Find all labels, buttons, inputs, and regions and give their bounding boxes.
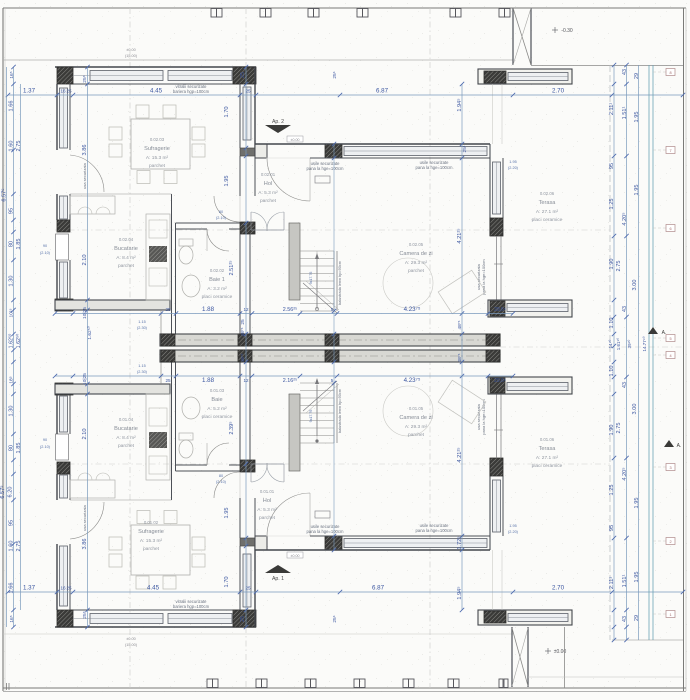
small dims kitchen wall bottom (137, 364, 148, 374)
svg-text:29: 29 (634, 73, 640, 79)
room label Baie 1 0.02.02 (202, 268, 233, 300)
svg-text:80: 80 (219, 210, 223, 214)
svg-text:A: 27.1 m²: A: 27.1 m² (536, 455, 559, 461)
small dims bath door top (216, 210, 227, 220)
Ap.1 terrace south wall with window (488, 377, 572, 394)
svg-text:2.75: 2.75 (616, 423, 622, 434)
svg-text:95: 95 (9, 520, 15, 526)
Ap.2 terrace edge beam (478, 69, 572, 84)
svg-text:Camera de zi: Camera de zi (399, 415, 432, 421)
svg-text:0.01.03: 0.01.03 (210, 388, 225, 393)
interior dimension line x87.5 (87, 67, 89, 627)
room label Sufragerie 0.01.02 (138, 520, 164, 552)
right dimension line x626.5 (626, 65, 628, 640)
svg-text:43: 43 (622, 382, 628, 388)
svg-text:A.: A. (677, 443, 682, 449)
site border left (2, 8, 4, 691)
svg-text:usa securizata: usa securizata (82, 504, 87, 531)
svg-text:1.25: 1.25 (609, 485, 615, 496)
svg-text:1.66: 1.66 (9, 583, 15, 594)
svg-text:pana la hge=100cm: pana la hge=100cm (481, 399, 486, 435)
svg-text:48⁷⁵: 48⁷⁵ (457, 320, 463, 329)
dimension chain mid upper y313.5 (55, 313, 513, 315)
svg-text:parchet: parchet (149, 163, 166, 169)
svg-text:±0.00: ±0.00 (126, 48, 135, 52)
room label Hol 0.02.01 (258, 172, 278, 204)
svg-text:0.02.01: 0.02.01 (261, 172, 276, 177)
svg-text:2.39⁵: 2.39⁵ (228, 421, 235, 434)
svg-text:1.30: 1.30 (9, 406, 15, 417)
svg-text:Sufragerie: Sufragerie (144, 146, 170, 152)
Ap.2 west wall door opening with swing (70, 155, 104, 192)
svg-text:43: 43 (622, 69, 628, 75)
svg-text:25⁶: 25⁶ (332, 615, 338, 622)
Ap.1 west wall window 3 (projecting) (56, 434, 69, 460)
site border right (683, 8, 685, 691)
site border bottom (3, 687, 686, 689)
svg-text:(2.30): (2.30) (137, 370, 148, 374)
Ap.2 west wall segment 4 with window (56, 260, 58, 300)
Ap.2 bath WC (179, 246, 193, 264)
Ap.1 electrical panel (315, 511, 330, 518)
svg-text:1.72⁵: 1.72⁵ (456, 536, 463, 549)
svg-text:parchet: parchet (408, 432, 425, 438)
svg-text:A: 15.3 m²: A: 15.3 m² (140, 538, 163, 544)
svg-text:5: 5 (669, 337, 671, 341)
room label Hol 0.01.01 (257, 489, 277, 521)
Ap.1 corner pier NW (57, 610, 73, 627)
right dimension line x649 teal (648, 65, 650, 640)
party wall lower band (160, 350, 500, 362)
room label Sufragerie 0.02.03 (144, 137, 170, 169)
Ap.2 entry wall glazed band to living room (255, 143, 490, 145)
Ap.1 entrance arrow (265, 565, 291, 582)
svg-text:43: 43 (622, 306, 628, 312)
svg-text:A: 5.2 m²: A: 5.2 m² (207, 406, 227, 412)
Ap.1 hall closet double doors (251, 463, 284, 482)
svg-text:±0.00: ±0.00 (291, 554, 300, 558)
border jogs bottom left (6, 683, 8, 690)
Ap.1 dining door swing from hall (214, 472, 240, 498)
svg-text:95: 95 (609, 163, 615, 169)
small dims terrace slider top (508, 160, 519, 170)
svg-text:1.95: 1.95 (634, 498, 640, 509)
svg-text:0.01.04: 0.01.04 (119, 417, 134, 422)
svg-text:90: 90 (43, 244, 47, 248)
svg-text:A: 29.3 m²: A: 29.3 m² (405, 260, 428, 266)
svg-text:parchet: parchet (408, 268, 425, 274)
Ap.1 stair flight (300, 378, 339, 443)
service line under bottom beam (564, 627, 566, 688)
svg-text:0.01.06: 0.01.06 (540, 437, 555, 442)
small dims west door top (40, 244, 51, 255)
svg-text:A: 27.1 m²: A: 27.1 m² (536, 209, 559, 215)
Ap.2 kitchen-bath partition wall (171, 194, 173, 334)
Ap.2 entry wall west stub (255, 144, 267, 158)
svg-text:1.15: 1.15 (138, 320, 145, 324)
svg-text:9x17.76: 9x17.76 (309, 272, 313, 285)
svg-text:7: 7 (669, 149, 671, 153)
interior dimension line x462 (461, 84, 463, 610)
entry glazing label top left (307, 161, 344, 171)
Ap.2 exterior wall north left section (55, 66, 256, 68)
entry glazing label bottom right (416, 523, 453, 533)
svg-text:1.95: 1.95 (634, 185, 640, 196)
Ap.1 entry wall pier (325, 536, 342, 550)
Ap.2 west wall window 3 (projecting) (56, 234, 69, 260)
svg-text:1.10: 1.10 (609, 366, 615, 377)
Ap.2 bath east wall (239, 234, 241, 334)
Ap.2 terrace south wall with window (488, 300, 572, 317)
right dimension line x614 (613, 65, 615, 640)
svg-text:4.45: 4.45 (150, 88, 163, 95)
Ap.2 bath north wall (176, 222, 241, 224)
svg-text:25: 25 (240, 616, 246, 622)
svg-text:bariera hgp=100cm: bariera hgp=100cm (173, 89, 210, 94)
Ap.1 kitchen south wall (55, 384, 170, 394)
axis dashed vertical line x430 (429, 8, 431, 688)
Ap.1 bath east wall (239, 360, 241, 460)
Ap.2 corner pier SW kitchen (55, 299, 73, 311)
Ap.1 bath door swing (207, 443, 229, 465)
svg-text:parchet: parchet (259, 515, 276, 521)
svg-text:1.61⁹⁰: 1.61⁹⁰ (616, 338, 621, 351)
svg-text:placi ceramice: placi ceramice (532, 463, 563, 469)
Ap.2 entry door swing (267, 158, 310, 201)
svg-text:1.88: 1.88 (202, 377, 215, 384)
svg-text:2: 2 (669, 540, 671, 544)
svg-text:1.95: 1.95 (509, 160, 516, 164)
svg-text:1.88: 1.88 (202, 306, 215, 313)
Ap.1 entry wall glazed band to living room (255, 549, 490, 551)
svg-text:4.20⁵: 4.20⁵ (621, 212, 628, 225)
svg-text:25: 25 (240, 72, 246, 78)
svg-text:1.60: 1.60 (9, 541, 15, 552)
Ap.2 living room sofa circle (383, 258, 433, 308)
Ap.2 bath door swing (207, 229, 229, 251)
Ap.1 beam to wall connection lines (492, 550, 494, 610)
svg-text:5: 5 (331, 378, 334, 383)
Ap.1 kitchen-bath partition wall (171, 360, 173, 500)
svg-text:(2.10): (2.10) (216, 216, 227, 220)
neighbour facade line top (3, 59, 513, 61)
svg-text:0.02.02: 0.02.02 (210, 268, 225, 273)
Ap.2 dining table with chairs (109, 105, 205, 184)
svg-text:0.01.05: 0.01.05 (409, 406, 424, 411)
svg-text:Ap. 1: Ap. 1 (272, 576, 284, 582)
svg-text:1.95: 1.95 (634, 572, 640, 583)
section arrow A right lower (664, 440, 681, 449)
site border top (3, 7, 686, 9)
svg-text:placi ceramice: placi ceramice (532, 217, 563, 223)
ticks on interior dimension lines (85, 65, 464, 629)
svg-text:1.85: 1.85 (16, 443, 22, 454)
svg-text:3.00: 3.00 (632, 280, 638, 291)
neighbour facade line bottom right (612, 639, 683, 641)
left dimension line x6.5 (6, 67, 8, 627)
svg-text:3.86: 3.86 (82, 539, 88, 550)
svg-text:A: 3.2 m²: A: 3.2 m² (207, 286, 227, 292)
svg-text:2.16²⁵: 2.16²⁵ (283, 378, 298, 384)
svg-text:1.62⁵⁰: 1.62⁵⁰ (9, 334, 15, 349)
Ap.1 stair balustrade wall (289, 394, 300, 471)
room label Camera de zi 0.02.05 (399, 242, 432, 274)
svg-text:9x17.76: 9x17.76 (309, 410, 313, 423)
svg-text:placi ceramice: placi ceramice (202, 294, 233, 300)
svg-text:(2.20): (2.20) (508, 166, 519, 170)
svg-text:(15.00): (15.00) (125, 54, 138, 58)
svg-text:1.51¹: 1.51¹ (622, 574, 628, 587)
svg-text:1.51¹: 1.51¹ (622, 106, 628, 119)
svg-text:14.77⁹⁰: 14.77⁹⁰ (642, 336, 647, 351)
svg-text:1.90: 1.90 (609, 259, 615, 270)
Ap.2 electrical panel (315, 176, 330, 183)
right dimension line x653 teal (652, 65, 654, 640)
Ap.1 living east wall pier (490, 458, 503, 476)
Ap.1 corner pier SW kitchen (55, 383, 73, 395)
svg-text:1.37: 1.37 (23, 88, 36, 95)
svg-text:80: 80 (9, 241, 15, 247)
svg-text:8: 8 (669, 71, 671, 75)
svg-text:usa securizata: usa securizata (82, 162, 87, 189)
svg-text:29,6⁵: 29,6⁵ (494, 307, 506, 313)
svg-text:Terasa: Terasa (539, 446, 557, 452)
Ap.2 stair balustrade wall (289, 223, 300, 300)
svg-text:0.02.05: 0.02.05 (409, 242, 424, 247)
svg-text:25⁶: 25⁶ (332, 71, 338, 78)
svg-text:1.60: 1.60 (9, 141, 15, 152)
svg-text:4: 4 (669, 354, 671, 358)
Ap.1 terrace sliding door (496, 394, 498, 458)
svg-text:1.90: 1.90 (609, 425, 615, 436)
dimension chain bottom y592 (8, 591, 683, 593)
svg-text:2.70: 2.70 (552, 88, 565, 95)
svg-text:(15.00): (15.00) (125, 643, 138, 647)
axis dashed vertical line x246 (245, 8, 247, 67)
entry glazing label bottom left (307, 524, 344, 534)
svg-text:0.01.02: 0.01.02 (144, 520, 159, 525)
svg-text:39⁹⁰: 39⁹⁰ (627, 339, 632, 348)
Ap.2 corner pier NE of living-dining (233, 67, 256, 84)
svg-text:6.87: 6.87 (372, 585, 385, 592)
svg-text:0.02.04: 0.02.04 (119, 237, 134, 242)
entry level mark Ap.1 (287, 552, 303, 558)
small dims west door bottom (40, 438, 51, 449)
svg-text:1.70: 1.70 (224, 106, 230, 117)
Ap.2 hall-dining wall dark lintel (240, 148, 255, 156)
right dimension numbers (608, 69, 647, 622)
svg-text:2.56²⁵: 2.56²⁵ (283, 307, 298, 313)
svg-text:1.95: 1.95 (509, 524, 516, 528)
Ap.1 hall-dining wall dark lintel (240, 538, 255, 546)
Ap.1 living room sofa circle (383, 386, 433, 436)
svg-text:10|25: 10|25 (82, 373, 88, 385)
Ap.1 kitchen south wall step (160, 360, 162, 384)
Ap.1 corner pier NE of living-dining (233, 610, 256, 627)
svg-text:2.11¹: 2.11¹ (609, 103, 615, 115)
svg-text:Hol: Hol (264, 181, 272, 187)
svg-text:pana la hge=100cm: pana la hge=100cm (416, 165, 453, 170)
Ap.2 kitchen south wall step (160, 310, 162, 334)
svg-text:1.95: 1.95 (224, 507, 230, 518)
svg-text:2.10: 2.10 (82, 254, 88, 265)
svg-text:Baie: Baie (211, 397, 222, 403)
room label Bucatarie 0.02.04 (114, 237, 138, 269)
svg-text:6.87: 6.87 (376, 88, 389, 95)
svg-text:2.70: 2.70 (552, 585, 565, 592)
chimney shaft top with cross bracing (512, 8, 514, 65)
svg-text:placi ceramice: placi ceramice (202, 414, 233, 420)
svg-text:0.02.03: 0.02.03 (150, 137, 165, 142)
interior dimension numbers (82, 71, 468, 622)
svg-text:16⁵: 16⁵ (9, 71, 15, 78)
svg-text:parchet: parchet (118, 263, 135, 269)
Ap.1 north window band (90, 614, 163, 624)
svg-text:95: 95 (609, 525, 615, 531)
small dims bath door bottom (216, 474, 227, 484)
terrace dashed edge x610 (609, 65, 611, 640)
svg-text:1.95: 1.95 (634, 112, 640, 123)
svg-text:14⁹⁰: 14⁹⁰ (608, 339, 613, 348)
svg-text:-0.30: -0.30 (561, 28, 573, 34)
svg-text:1.85: 1.85 (16, 239, 22, 250)
Ap.1 terrace edge beam (478, 610, 572, 625)
svg-text:1.62⁵⁰: 1.62⁵⁰ (16, 334, 22, 349)
svg-text:25¹: 25¹ (462, 145, 468, 152)
svg-text:3.86: 3.86 (82, 145, 88, 156)
svg-text:1.94⁵: 1.94⁵ (456, 586, 463, 599)
svg-text:A: 5.3 m²: A: 5.3 m² (258, 190, 278, 196)
svg-text:43: 43 (622, 616, 628, 622)
svg-text:16: 16 (60, 89, 66, 94)
Ap.2 hall wall pier south (240, 222, 255, 234)
svg-text:1.25: 1.25 (609, 199, 615, 210)
Ap.1 hall-dining wall mid (239, 498, 241, 538)
svg-text:1.10: 1.10 (609, 318, 615, 329)
svg-text:2.51²⁵: 2.51²⁵ (228, 260, 235, 275)
entry level mark Ap.2 (287, 136, 303, 142)
axis dashed horizontal center (500, 346, 683, 348)
left dimension line x20.5 (20, 84, 22, 610)
svg-text:Sufragerie: Sufragerie (138, 529, 164, 535)
level note on axis line top (125, 48, 138, 58)
room label Terasa 0.02.06 (532, 191, 563, 223)
svg-text:A: 5.3 m²: A: 5.3 m² (257, 507, 277, 513)
Ap.1 west wall segment 4 with window (56, 394, 58, 434)
svg-text:16⁵: 16⁵ (9, 615, 15, 622)
svg-text:80: 80 (9, 445, 15, 451)
Ap.2 beam to wall connection lines (492, 84, 494, 144)
svg-text:pana la hge=100cm: pana la hge=100cm (481, 259, 486, 295)
interior dimension line x246 (245, 67, 247, 627)
svg-text:parchet: parchet (260, 198, 277, 204)
Ap.1 hall-dining wall upper with window (239, 546, 241, 610)
room label Terasa 0.01.06 (532, 437, 563, 469)
svg-text:Baie 1: Baie 1 (209, 277, 225, 283)
Ap.2 stair flight (300, 251, 339, 313)
room label Camera de zi 0.01.05 (399, 406, 432, 438)
Ap.2 west wall segment 2 (56, 194, 58, 220)
Ap.1 kitchen counter north with sink (70, 480, 115, 498)
svg-text:Bucatarie: Bucatarie (114, 246, 138, 252)
svg-text:25: 25 (66, 89, 72, 94)
Ap.1 bath north wall (176, 470, 241, 472)
svg-text:Ap. 2: Ap. 2 (272, 119, 284, 125)
svg-text:pana la hge=100cm: pana la hge=100cm (416, 528, 453, 533)
axis marker boxes right edge (653, 69, 675, 618)
svg-text:balustrada lemn hp=90cm: balustrada lemn hp=90cm (338, 261, 342, 305)
svg-text:18⁵: 18⁵ (9, 376, 15, 383)
axis dashed horizontal y230 (55, 229, 610, 231)
svg-text:(2.30): (2.30) (137, 326, 148, 330)
south window label (173, 599, 210, 609)
svg-text:4.20⁵: 4.20⁵ (621, 467, 628, 480)
section arrow A right upper (648, 327, 666, 336)
svg-text:1.37: 1.37 (23, 585, 36, 592)
svg-text:6.57⁵: 6.57⁵ (1, 188, 8, 201)
Ap.2 hall-dining wall upper with window (239, 84, 241, 148)
Ap.2 kitchen counter north with sink (70, 196, 115, 214)
left dimension numbers (0, 71, 22, 622)
svg-text:29: 29 (634, 615, 640, 621)
svg-text:1.94⁵: 1.94⁵ (456, 98, 463, 111)
svg-text:A: 8.4 m²: A: 8.4 m² (116, 255, 136, 261)
svg-text:±0.00: ±0.00 (291, 138, 300, 142)
left dimension line x13.5 (13, 67, 15, 627)
interior dimension line x334 (333, 144, 335, 550)
svg-text:4.45: 4.45 (147, 585, 160, 592)
chimney shaft bottom with cross bracing (511, 627, 513, 687)
svg-text:Bucatarie: Bucatarie (114, 426, 138, 432)
svg-text:90: 90 (43, 438, 47, 442)
level note on axis line bottom (125, 637, 138, 647)
Ap.1 kitchen counter east (146, 394, 170, 480)
Ap.1 living east wall upper (489, 458, 491, 550)
Ap.1 west wall door opening with swing (70, 502, 104, 539)
svg-text:pana la hge=100cm: pana la hge=100cm (307, 529, 344, 534)
axis dashed horizontal y464 (55, 463, 610, 465)
level mark +0.00 bottom right (545, 648, 566, 655)
Ap.1 entry door swing (267, 493, 310, 536)
Ap.2 north window band (90, 71, 163, 81)
party wall upper band piers (161, 334, 175, 346)
svg-text:(2.10): (2.10) (40, 251, 51, 255)
svg-text:25: 25 (240, 319, 246, 325)
Ap.2 terrace sliding door (496, 236, 498, 300)
Ap.1 bath WC (179, 440, 193, 458)
dimension chain mid lower y376 (55, 375, 513, 377)
Ap.2 west wall segment with window 1 (56, 84, 58, 150)
small dims terrace slider bottom (508, 524, 519, 534)
right dimension line x638.5 (638, 65, 640, 640)
Ap.1 west wall segment 2 (56, 474, 58, 500)
room label Baie 0.01.03 (202, 388, 233, 420)
svg-text:4.21²⁵: 4.21²⁵ (456, 228, 463, 244)
svg-text:balustrada lemn hp=90cm: balustrada lemn hp=90cm (338, 389, 342, 433)
svg-text:80: 80 (219, 474, 223, 478)
svg-text:6: 6 (669, 227, 671, 231)
Ap.2 kitchen stove hatched (149, 246, 167, 262)
top boundary window symbols (211, 9, 217, 18)
svg-text:4.21²⁵: 4.21²⁵ (456, 447, 463, 463)
neighbour facade line bottom (3, 633, 513, 635)
svg-text:25: 25 (165, 307, 171, 312)
svg-text:1.30: 1.30 (9, 276, 15, 287)
svg-text:29,6⁵: 29,6⁵ (494, 378, 506, 384)
svg-text:25: 25 (66, 586, 72, 591)
Ap.2 west wall pier mid (57, 220, 70, 232)
svg-text:1.62⁵⁰: 1.62⁵⁰ (87, 326, 93, 339)
